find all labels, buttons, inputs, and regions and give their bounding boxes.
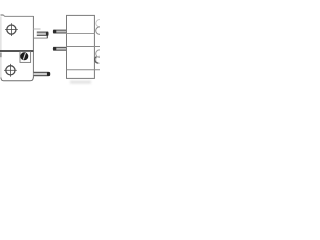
top blade pin: [37, 32, 49, 36]
divider 2: [67, 46, 101, 48]
side screw circle lower: [96, 50, 103, 57]
body top edge with small step tab: [1, 15, 34, 16]
divider 1: [67, 33, 95, 35]
body right edge: [32, 16, 34, 78]
left edge screw remnant: [0, 53, 2, 58]
body bottom edge with rounded corners: [1, 78, 33, 81]
pin base tick: [46, 36, 48, 39]
body left edge: [0, 17, 2, 79]
divider 3: [67, 69, 101, 71]
caption smudge: [70, 81, 91, 84]
mid dark band: [0, 50, 33, 52]
body rectangle: [67, 15, 95, 78]
clamp screw box: [20, 52, 31, 63]
step ledge line: [33, 28, 40, 30]
connector technical drawing: [0, 0, 100, 100]
pin base line: [33, 37, 47, 39]
side screw circle lower faint: [96, 56, 103, 63]
top crosshair screw: [5, 23, 18, 36]
side screw circle upper: [96, 27, 103, 34]
slotted clamp screw: [20, 52, 28, 60]
bottom crosshair screw: [4, 64, 17, 77]
side screw lower dark wedge: [95, 57, 99, 64]
bottom blade pin: [34, 72, 51, 76]
top left blade pin: [53, 30, 66, 33]
bottom left blade pin: [53, 47, 66, 50]
side screw circle faint upper: [96, 20, 103, 27]
